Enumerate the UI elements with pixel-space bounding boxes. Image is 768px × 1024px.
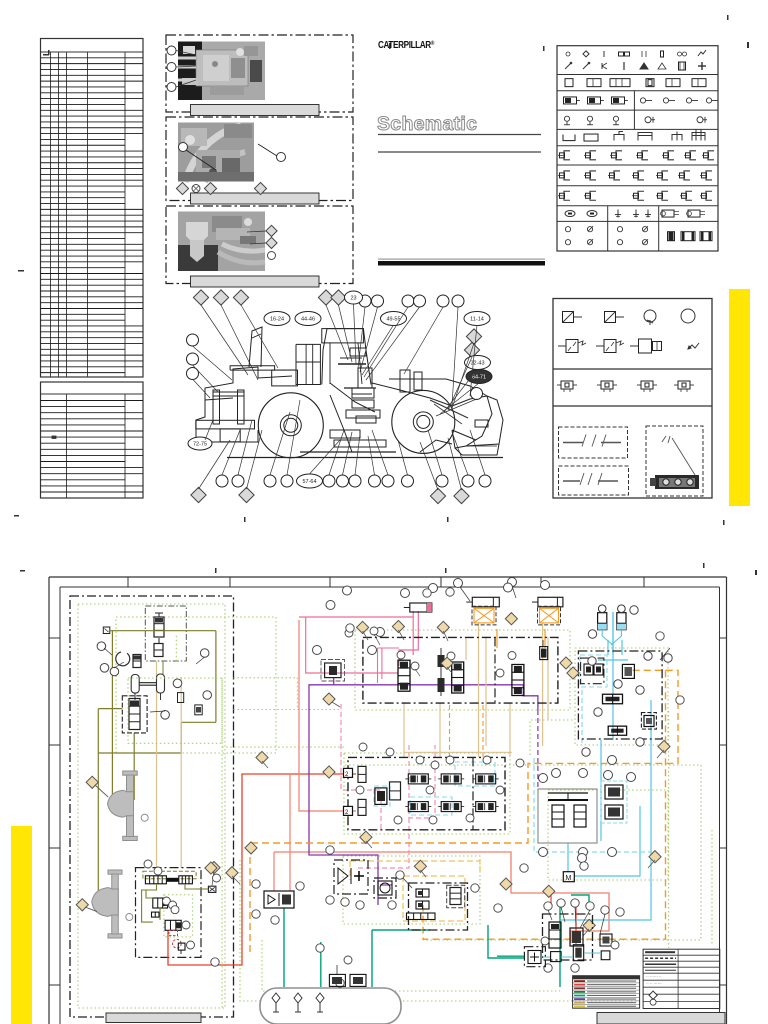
- svg-text:57-64: 57-64: [302, 479, 316, 485]
- svg-text:23: 23: [350, 296, 356, 302]
- svg-text:·· ·· ······: ·· ·· ······: [646, 981, 662, 986]
- svg-text:·· ······ ··: ·· ······ ··: [646, 974, 662, 979]
- svg-text:M: M: [566, 875, 572, 882]
- svg-text:64-71: 64-71: [472, 375, 486, 381]
- svg-text:44-46: 44-46: [301, 317, 315, 323]
- svg-text:32-43: 32-43: [470, 361, 484, 367]
- svg-text:72-75: 72-75: [193, 442, 207, 448]
- svg-text:11-14: 11-14: [470, 317, 484, 323]
- svg-text:CATERPILLAR®: CATERPILLAR®: [378, 38, 434, 50]
- svg-text:16-24: 16-24: [270, 317, 284, 323]
- svg-text:Schematic: Schematic: [377, 113, 477, 135]
